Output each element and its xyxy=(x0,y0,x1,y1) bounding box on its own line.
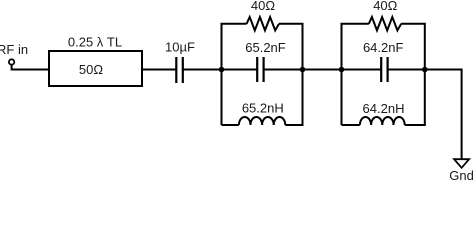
wire tank1 top left lead xyxy=(221,23,247,25)
node A junction dot xyxy=(219,67,225,73)
svg-text:64.2nH: 64.2nH xyxy=(363,101,405,116)
svg-text:65.2nF: 65.2nF xyxy=(245,40,286,55)
svg-text:50Ω: 50Ω xyxy=(79,62,103,77)
wire tank2 middle left lead xyxy=(342,69,382,71)
wire tank2 left vertical xyxy=(341,24,343,125)
svg-text:65.2nH: 65.2nH xyxy=(242,101,284,116)
wire tank1 right vertical xyxy=(302,24,304,125)
wire tank2 top right lead xyxy=(401,23,426,25)
wire tank2 bottom right lead xyxy=(405,124,426,126)
wire C1 to node A xyxy=(183,69,222,71)
inductor L1 65.2nH xyxy=(239,117,285,125)
capacitor C1 10uF xyxy=(175,57,177,83)
svg-text:Gnd: Gnd xyxy=(449,168,474,181)
transmission line TL1 box xyxy=(49,51,142,86)
port P1 (RF in terminal) xyxy=(9,59,14,64)
wire tank1 bottom right lead xyxy=(285,124,303,126)
svg-text:40Ω: 40Ω xyxy=(373,0,397,13)
svg-text:40Ω: 40Ω xyxy=(251,0,275,13)
svg-text:RF in: RF in xyxy=(0,42,28,57)
wire port to TL box xyxy=(12,65,49,70)
capacitor C3 64.2nF xyxy=(380,57,382,82)
resistor R2 40 ohm xyxy=(369,17,401,30)
ground symbol xyxy=(454,159,469,168)
wire tank1 top right lead xyxy=(279,23,304,25)
wire tank1 left vertical xyxy=(221,24,223,125)
wire tank1 middle left lead xyxy=(222,69,258,71)
wire node D to ground drop xyxy=(425,70,462,160)
wire tank2 middle right lead xyxy=(388,69,425,71)
svg-text:0.25 λ TL: 0.25 λ TL xyxy=(68,35,122,50)
wire node B to node C xyxy=(303,69,342,71)
wire tank2 top left lead xyxy=(341,23,369,25)
wire tank1 middle right lead xyxy=(264,69,303,71)
svg-text:10µF: 10µF xyxy=(165,40,195,55)
resistor R1 40 ohm xyxy=(247,17,279,30)
wire tank2 right vertical xyxy=(424,24,426,125)
wire tank2 bottom left lead xyxy=(342,124,360,126)
node B junction dot xyxy=(300,67,306,73)
node C junction dot xyxy=(339,67,345,73)
capacitor C2 65.2nF xyxy=(256,57,258,82)
wire TL box to C1 xyxy=(142,69,176,71)
wire tank1 bottom left lead xyxy=(222,124,239,126)
svg-text:64.2nF: 64.2nF xyxy=(363,40,404,55)
node D junction dot xyxy=(422,67,428,73)
inductor L2 64.2nH xyxy=(360,117,405,125)
